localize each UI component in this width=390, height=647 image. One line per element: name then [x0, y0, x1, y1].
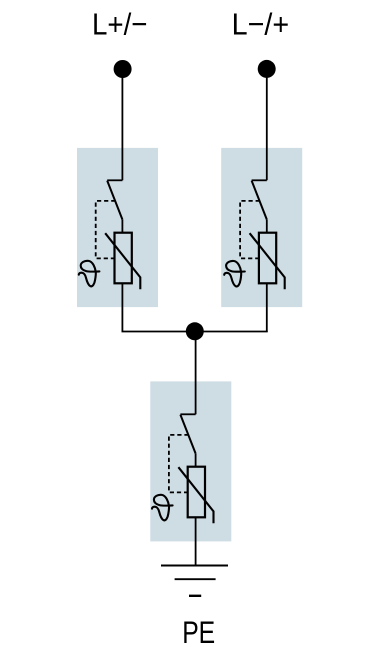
junction node: [186, 322, 204, 340]
SPD block F2 shaded box: [221, 148, 302, 307]
ground (earth) symbol: [161, 566, 228, 596]
svg-text:L+/−: L+/−: [92, 7, 148, 42]
terminal node L-: [258, 60, 276, 78]
thermal disconnect switch F3: [180, 414, 195, 467]
thermal disconnect switch F2: [252, 180, 267, 233]
bus wire: [122, 331, 268, 333]
SPD block F1 shaded box: [77, 148, 158, 307]
varistor RV2: [250, 233, 285, 290]
wire RV3 to ground: [195, 517, 197, 565]
theta symbol F1: [79, 261, 100, 287]
dashed thermal coupling F1: [96, 201, 116, 259]
varistor RV1: [105, 233, 140, 290]
wire RV1 to bus: [121, 283, 123, 332]
wire junction to switch F3: [195, 332, 197, 415]
svg-text:PE: PE: [182, 614, 215, 647]
wire RV2 to bus: [266, 283, 268, 332]
theta symbol F2: [224, 261, 245, 287]
thermal disconnect switch F1: [107, 180, 122, 233]
dashed thermal coupling F3: [169, 435, 189, 493]
varistor RV3: [178, 467, 213, 524]
SPD block F3 shaded box: [150, 381, 231, 541]
dashed thermal coupling F2: [240, 201, 260, 259]
svg-text:L−/+: L−/+: [232, 7, 290, 42]
wire L+ terminal to switch F1: [121, 69, 123, 180]
theta symbol F3: [152, 495, 173, 521]
terminal node L+: [114, 60, 132, 78]
wire L- terminal to switch F2: [266, 69, 268, 180]
